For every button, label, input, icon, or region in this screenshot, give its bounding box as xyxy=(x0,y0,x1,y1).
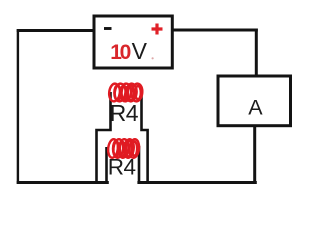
lower tier right post xyxy=(138,146,141,184)
inductor coil R4 upper xyxy=(108,83,143,102)
battery minus sign xyxy=(104,27,112,30)
wire top-right horizontal xyxy=(172,29,258,32)
inductor coil R4 lower xyxy=(107,139,140,159)
upper tier right post + step + right outer wall xyxy=(142,93,148,184)
battery plus sign xyxy=(152,24,163,35)
svg-text:R4: R4 xyxy=(110,100,139,126)
wire right upper vertical xyxy=(255,29,258,77)
battery V1 box xyxy=(94,16,172,68)
ammeter A1 box xyxy=(218,76,291,126)
svg-text:R4: R4 xyxy=(108,155,136,180)
wire bottom horizontal xyxy=(17,181,257,184)
faint period after V xyxy=(152,57,154,59)
wire top-left horizontal xyxy=(17,29,94,32)
white gap under lower label xyxy=(109,157,138,188)
svg-text:V: V xyxy=(132,38,148,64)
wire left vertical xyxy=(17,29,19,184)
svg-text:A: A xyxy=(248,95,263,119)
wire right lower vertical xyxy=(253,126,256,184)
upper tier left post + step + left outer wall xyxy=(97,92,111,184)
svg-text:10: 10 xyxy=(110,41,130,64)
lower tier left post xyxy=(105,147,108,184)
